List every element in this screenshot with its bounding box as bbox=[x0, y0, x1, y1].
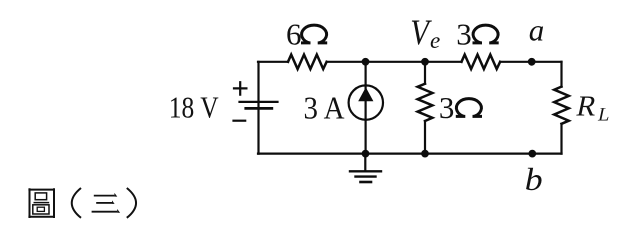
hanzi SAN serif 2 bbox=[112, 200, 115, 204]
hanzi TU lower inner box bbox=[37, 207, 44, 211]
resistor 3ohm vertical zigzag bbox=[418, 84, 433, 121]
battery plus sign bbox=[234, 82, 246, 94]
hanzi TU inner top box bbox=[35, 193, 46, 200]
hanzi SAN serif 3 bbox=[117, 209, 120, 213]
wire top-right segment bbox=[500, 61, 561, 63]
hanzi SAN serif 1 bbox=[114, 193, 117, 197]
wire right vertical lower bbox=[560, 124, 562, 154]
svg-text:a: a bbox=[529, 13, 545, 48]
hanzi SAN stroke 2 bbox=[96, 202, 112, 204]
hanzi TU (figure) outer box bbox=[28, 188, 55, 218]
svg-text:V: V bbox=[410, 13, 432, 53]
current source arrow bbox=[358, 87, 373, 101]
ground bar 3 bbox=[361, 181, 372, 184]
wire top-left segment bbox=[258, 61, 288, 63]
hanzi TU lower outer box bbox=[33, 205, 49, 214]
wire right vertical upper bbox=[560, 62, 562, 87]
resistor 3ohm horizontal zigzag bbox=[462, 55, 501, 69]
svg-text:18 V: 18 V bbox=[169, 90, 219, 125]
node Ve dot bbox=[421, 58, 429, 66]
current source I1 circle bbox=[349, 85, 383, 119]
hanzi TU middle bar bbox=[34, 202, 50, 204]
svg-text:6: 6 bbox=[286, 16, 302, 51]
battery V1 bottom plate bbox=[246, 107, 272, 110]
wire top-middle segment bbox=[327, 61, 462, 63]
node dot Ve branch bottom bbox=[421, 150, 429, 158]
node b dot bbox=[528, 150, 536, 158]
resistor RL zigzag bbox=[554, 87, 569, 124]
fullwidth left parenthesis bbox=[72, 188, 81, 218]
node dot current source bottom bbox=[362, 150, 370, 158]
svg-text:3: 3 bbox=[439, 90, 455, 125]
wire Ve branch upper bbox=[424, 62, 426, 84]
battery minus sign bbox=[234, 120, 246, 122]
svg-text:L: L bbox=[596, 105, 612, 126]
svg-text:R: R bbox=[574, 91, 601, 123]
node dot current source top bbox=[362, 58, 370, 66]
wire current-source branch bbox=[365, 62, 367, 154]
hanzi SAN stroke 1 bbox=[94, 195, 115, 197]
svg-text:b: b bbox=[525, 162, 543, 197]
fullwidth right parenthesis bbox=[127, 188, 136, 218]
wire bottom bbox=[258, 153, 562, 155]
ground bar 2 bbox=[356, 175, 376, 177]
svg-text:e: e bbox=[430, 28, 440, 53]
battery V1 top plate bbox=[240, 101, 278, 103]
wire left vertical with battery bbox=[257, 62, 259, 154]
resistor 6ohm zigzag bbox=[288, 55, 327, 69]
ground bar 1 bbox=[350, 170, 381, 172]
svg-text:3: 3 bbox=[456, 16, 472, 51]
node a dot bbox=[528, 58, 536, 66]
hanzi SAN stroke 3 bbox=[92, 211, 118, 213]
svg-text:3 A: 3 A bbox=[304, 91, 345, 126]
wire Ve branch lower bbox=[424, 121, 426, 154]
ground stub wire bbox=[364, 154, 366, 171]
